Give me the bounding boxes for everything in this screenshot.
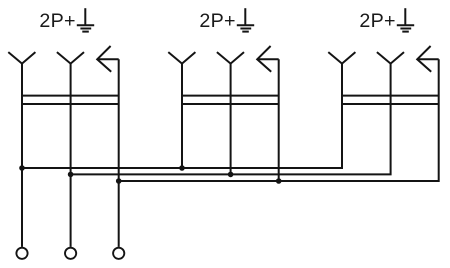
svg-text:2P+: 2P+ bbox=[359, 10, 395, 32]
svg-text:2P+: 2P+ bbox=[39, 10, 75, 32]
svg-text:2P+: 2P+ bbox=[199, 10, 235, 32]
